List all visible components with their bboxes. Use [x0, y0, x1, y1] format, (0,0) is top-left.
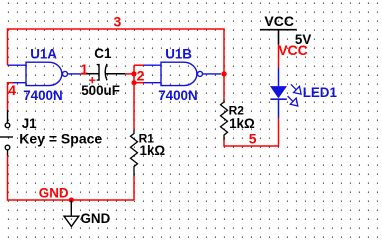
ground symbol — [64, 200, 79, 226]
wire net2 down to R1 — [133, 83, 135, 130]
svg-text:LED1: LED1 — [303, 85, 338, 100]
wire net 1 (U1A output to C1) — [80, 73, 86, 75]
wire net 4 (U1A bottom input to J1) — [8, 83, 14, 110]
svg-text:7400N: 7400N — [23, 88, 62, 103]
wire R1 bottom to GND rail — [133, 176, 135, 200]
svg-text:5: 5 — [249, 131, 257, 147]
LED1 triangle — [270, 86, 287, 98]
wire GND rail (J1 and R1 bottoms to ground) — [8, 156, 135, 201]
svg-text:J1: J1 — [22, 116, 37, 131]
wire net 3 (U1B output feedback loop to U1A top input) — [8, 29, 225, 74]
svg-text:1kΩ: 1kΩ — [229, 116, 255, 131]
wire junction down to R2 — [223, 74, 225, 100]
svg-text:VCC: VCC — [264, 13, 294, 29]
junction U1B output / net3 / R2 — [221, 71, 226, 76]
svg-text:500uF: 500uF — [81, 83, 120, 98]
LED1 light arrow 2 — [288, 96, 298, 106]
svg-text:2: 2 — [137, 67, 145, 83]
svg-text:C1: C1 — [94, 46, 112, 61]
svg-text:4: 4 — [8, 82, 16, 98]
svg-text:GND: GND — [39, 186, 69, 201]
LED1 cathode bar — [270, 98, 286, 100]
VCC power symbol — [260, 30, 297, 45]
C1 polarity plus sign — [89, 77, 95, 83]
LED1 anode wire — [278, 68, 280, 87]
svg-text:1kΩ: 1kΩ — [140, 143, 166, 158]
wire net 5 (R2 bottom to LED cathode) — [224, 118, 279, 146]
switch J1 — [0, 110, 13, 156]
svg-text:7400N: 7400N — [158, 88, 197, 103]
svg-text:1: 1 — [80, 61, 88, 77]
svg-text:3: 3 — [114, 14, 122, 30]
LED1 light arrow 1 — [291, 84, 301, 94]
junction at U1B bottom input/R1 — [131, 80, 136, 85]
op-amp U1B (7400N NAND gate) — [144, 62, 222, 85]
wire VCC red segment — [278, 45, 280, 68]
junction at C1/U1B — [131, 71, 136, 76]
svg-text:VCC: VCC — [278, 42, 308, 58]
svg-text:U1A: U1A — [30, 47, 57, 62]
resistor R2 1k — [221, 100, 228, 141]
capacitor C1 500uF — [86, 64, 125, 81]
svg-text:Key = Space: Key = Space — [19, 131, 102, 147]
wire net 2 (C1 to U1B inputs and R1) — [125, 65, 144, 83]
junction at ground — [69, 197, 74, 202]
resistor R1 1k — [131, 130, 138, 176]
op-amp U1A (7400N NAND gate) — [8, 62, 81, 85]
svg-text:U1B: U1B — [165, 47, 192, 62]
svg-text:GND: GND — [81, 211, 111, 226]
LED1 cathode wire — [278, 99, 280, 118]
